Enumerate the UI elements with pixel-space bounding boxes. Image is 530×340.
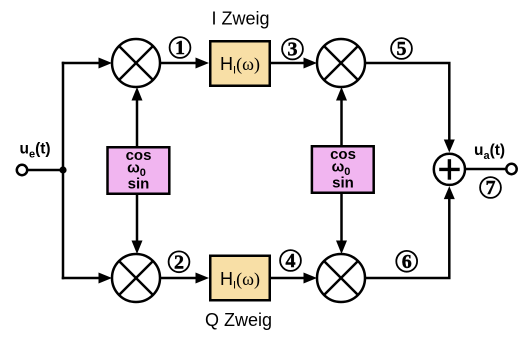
adder S1 bbox=[434, 154, 465, 185]
filter HQ bbox=[210, 256, 270, 301]
junction node bbox=[59, 166, 66, 173]
svg-text:3: 3 bbox=[288, 39, 298, 61]
multiplier M1 bbox=[112, 39, 160, 87]
svg-text:6: 6 bbox=[402, 251, 412, 273]
wire M2 to filter HQ bbox=[160, 273, 209, 284]
svg-text:ue(t): ue(t) bbox=[20, 141, 51, 161]
wire filter HQ to M4 bbox=[271, 273, 317, 284]
svg-text:HI(ω): HI(ω) bbox=[220, 54, 260, 77]
svg-text:4: 4 bbox=[286, 250, 296, 272]
node 4 bbox=[280, 250, 301, 272]
output terminal ua bbox=[506, 164, 516, 174]
node 2 bbox=[169, 251, 190, 273]
multiplier M2 bbox=[112, 254, 160, 302]
wire M4 to adder bbox=[365, 186, 455, 278]
svg-text:Q Zweig: Q Zweig bbox=[205, 310, 272, 330]
multiplier M3 bbox=[317, 39, 365, 87]
wire oscillator left up into M1 bbox=[132, 87, 143, 146]
filter HI bbox=[210, 41, 270, 86]
svg-text:I Zweig: I Zweig bbox=[211, 9, 269, 29]
svg-text:HI(ω): HI(ω) bbox=[220, 269, 260, 292]
node 5 bbox=[391, 38, 412, 60]
svg-text:2: 2 bbox=[174, 251, 184, 273]
oscillator right cos w0 sin bbox=[312, 146, 374, 193]
node 3 bbox=[282, 39, 303, 61]
wire input to junction bbox=[28, 169, 64, 172]
multiplier M4 bbox=[317, 254, 365, 302]
input terminal ue bbox=[17, 165, 27, 175]
svg-text:sin: sin bbox=[128, 176, 150, 193]
svg-text:5: 5 bbox=[397, 38, 407, 60]
wire oscillator left down into M2 bbox=[132, 195, 143, 254]
node 1 bbox=[170, 37, 191, 59]
wire top feed into M1 bbox=[62, 58, 112, 69]
svg-text:1: 1 bbox=[175, 37, 185, 59]
svg-text:ua(t): ua(t) bbox=[474, 142, 505, 162]
wire oscillator right down into M4 bbox=[336, 194, 347, 254]
wire filter HI to M3 bbox=[271, 58, 317, 69]
wire M3 to adder bbox=[365, 63, 455, 153]
wire M1 to filter HI bbox=[160, 58, 209, 69]
wire riser bbox=[62, 62, 65, 280]
svg-text:sin: sin bbox=[332, 175, 354, 192]
node 6 bbox=[396, 251, 417, 273]
wire bottom feed into M2 bbox=[62, 273, 112, 284]
wire adder to output terminal bbox=[465, 168, 506, 171]
node 7 bbox=[480, 177, 501, 199]
oscillator left cos w0 sin bbox=[108, 147, 170, 194]
wire oscillator right up into M3 bbox=[336, 87, 347, 145]
svg-text:7: 7 bbox=[486, 177, 496, 199]
